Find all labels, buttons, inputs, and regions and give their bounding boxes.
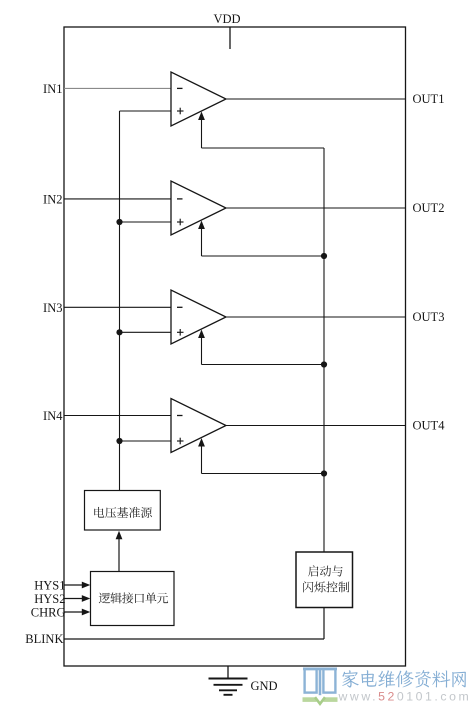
IC boundary box: [64, 27, 406, 666]
VDD pin stub wire: [229, 28, 231, 50]
svg-text:OUT1: OUT1: [413, 92, 445, 106]
junction dot on reference bus: [116, 438, 122, 444]
svg-text:CHRG: CHRG: [31, 605, 66, 619]
svg-text:IN1: IN1: [43, 82, 62, 96]
svg-text:IN2: IN2: [43, 192, 62, 206]
U3 inverting input "-" sign: [177, 306, 183, 308]
voltage reference block (dian ya ji zhun yuan): [85, 491, 161, 531]
U2 non-inverting input "+" sign: [177, 221, 184, 223]
wire hysteresis feedback vertical with arrow into U4: [201, 442, 203, 474]
wire U3 output to OUT3: [226, 316, 406, 318]
comparator U4: [171, 399, 226, 453]
wire IN2 input to inverting input: [64, 198, 171, 200]
watermark logo: green book base: [303, 697, 338, 702]
wire U2 output to OUT2: [226, 207, 406, 209]
U3 non-inverting input "+" sign: [177, 331, 184, 333]
svg-text:VDD: VDD: [213, 12, 240, 26]
wire IN4 input to inverting input: [64, 415, 171, 417]
comparator U3: [171, 290, 226, 344]
watermark site name text: [342, 670, 466, 688]
wire reference bus to non-inverting input of U1: [120, 110, 172, 112]
junction dot on feedback bus: [321, 361, 327, 367]
svg-text:IN4: IN4: [43, 409, 63, 423]
wire reference bus vertical (Vref to + inputs): [119, 111, 121, 491]
junction dot on reference bus: [116, 219, 122, 225]
wire hysteresis feedback horizontal U3: [202, 364, 325, 366]
svg-text:OUT4: OUT4: [413, 419, 446, 433]
svg-text:BLINK: BLINK: [25, 632, 63, 646]
wire hysteresis feedback horizontal U4: [202, 473, 325, 475]
svg-text:IN3: IN3: [43, 301, 62, 315]
junction dot on feedback bus: [321, 253, 327, 259]
wire IN1 input to inverting input: [64, 87, 171, 89]
wire hysteresis feedback vertical with arrow into U1: [201, 115, 203, 148]
wire hysteresis feedback vertical with arrow into U2: [201, 224, 203, 256]
start & blink control block (qi dong yu shan shuo kong zhi): [296, 552, 353, 608]
comparator U2: [171, 181, 226, 235]
U1 inverting input "-" sign: [177, 87, 183, 89]
wire HYS1 into logic block with arrow: [64, 584, 84, 586]
wire reference bus to non-inverting input of U4: [120, 440, 172, 442]
ground symbol: [209, 679, 248, 695]
wire reference bus to non-inverting input of U3: [120, 331, 172, 333]
GND pin stub wire: [227, 666, 229, 679]
wire BLINK to start/blink control block: [64, 638, 324, 640]
svg-text:OUT2: OUT2: [413, 201, 445, 215]
wire IN3 input to inverting input: [64, 306, 171, 308]
wire U1 output to OUT1: [226, 98, 406, 100]
watermark logo: open book icon: [303, 668, 337, 695]
wire CHRG into logic block with arrow: [64, 611, 84, 613]
svg-text:GND: GND: [251, 679, 278, 693]
wire U4 output to OUT4: [226, 425, 406, 427]
wire HYS2 into logic block with arrow: [64, 598, 84, 600]
wire hysteresis feedback horizontal U2: [202, 255, 325, 257]
wire logic block to voltage reference with up arrow: [118, 537, 120, 572]
U1 non-inverting input "+" sign: [177, 110, 184, 112]
svg-text:www.520101.com: www.520101.com: [338, 690, 472, 704]
junction dot on feedback bus: [321, 470, 327, 476]
wire feedback bus vertical (to start/blink control): [323, 148, 325, 553]
svg-text:OUT3: OUT3: [413, 310, 445, 324]
comparator U1: [171, 72, 226, 126]
wire reference bus to non-inverting input of U2: [120, 221, 172, 223]
svg-text:HYS2: HYS2: [34, 592, 65, 606]
U4 inverting input "-" sign: [177, 415, 183, 417]
junction dot on reference bus: [116, 329, 122, 335]
wire hysteresis feedback vertical with arrow into U3: [201, 333, 203, 365]
U2 inverting input "-" sign: [177, 198, 183, 200]
logic interface unit block (luo ji jie kou dan yuan): [91, 572, 175, 626]
U4 non-inverting input "+" sign: [177, 440, 184, 442]
wire hysteresis feedback horizontal U1: [202, 147, 325, 149]
svg-text:HYS1: HYS1: [34, 578, 65, 592]
